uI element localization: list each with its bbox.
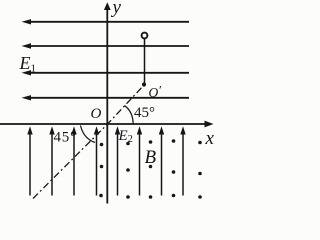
- E2 arrow 6: [137, 126, 142, 195]
- pendulum string: [144, 39, 146, 84]
- svg-text:y: y: [111, 0, 122, 18]
- B dots column 3: [149, 140, 153, 199]
- svg-text:O: O: [91, 106, 102, 122]
- E2 arrow 4: [94, 126, 99, 195]
- field line E1 row1: [22, 19, 190, 24]
- angle arc upper 45: [125, 106, 134, 124]
- field line E1 row2: [22, 43, 190, 48]
- B dots column 4: [172, 139, 176, 197]
- E2 arrow 5: [115, 126, 120, 195]
- E2 arrow 7: [159, 126, 164, 195]
- pendulum bob circle: [142, 33, 148, 39]
- B dots column 5: [198, 141, 202, 199]
- svg-text:45°: 45°: [134, 105, 155, 121]
- E2 arrow 2: [49, 126, 54, 195]
- E2 arrow 1: [27, 126, 32, 195]
- field line E1 row3: [22, 70, 190, 75]
- dash-dot trajectory line: [33, 85, 145, 199]
- field line E1 row4: [22, 95, 190, 100]
- y-axis: [104, 2, 111, 203]
- B dots column 1: [99, 143, 103, 198]
- x-axis: [0, 121, 214, 128]
- E2 arrow 3: [71, 126, 76, 195]
- B dots column 2: [126, 142, 130, 199]
- angle arc lower 45: [81, 126, 96, 143]
- svg-text:x: x: [205, 128, 215, 149]
- pivot dot O': [142, 82, 146, 86]
- E2 arrow 8: [180, 126, 185, 195]
